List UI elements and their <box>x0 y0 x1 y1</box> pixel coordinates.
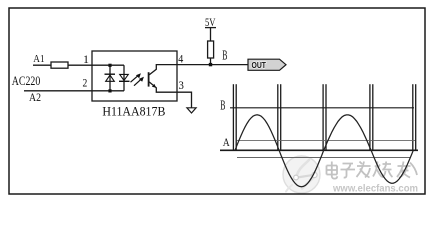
sine wave A <box>235 115 413 187</box>
junction dot top <box>108 64 111 67</box>
light arrows <box>131 73 144 86</box>
wire pin2 internal <box>92 90 124 92</box>
svg-text:H11AA817B: H11AA817B <box>102 104 165 119</box>
pulse 4 <box>369 84 371 151</box>
wire resistor to node B <box>210 58 212 65</box>
ground <box>187 108 196 113</box>
A axis line <box>220 149 418 151</box>
watermark logo <box>283 156 320 193</box>
OUT port flag <box>248 59 286 70</box>
svg-text:3: 3 <box>179 78 184 92</box>
frame border <box>9 8 425 194</box>
diode D2 down <box>119 80 130 82</box>
optocoupler U1 H11AA817B body <box>92 51 177 101</box>
wire resistor to pin1 <box>68 64 92 66</box>
junction dot node B <box>209 63 212 66</box>
node A2 wire <box>24 90 92 92</box>
svg-text:A1: A1 <box>33 53 44 65</box>
watermark hanzi 电子发烧友 (approximated strokes) <box>328 163 419 180</box>
svg-text:A2: A2 <box>29 92 41 104</box>
resistor R1 (input) <box>51 62 68 68</box>
lower threshold line <box>237 157 410 159</box>
wire pin3 to ground <box>177 92 192 108</box>
wire led right branch <box>123 65 125 91</box>
svg-text:A: A <box>223 137 231 149</box>
upper threshold line <box>237 140 415 142</box>
pulse 1 <box>233 84 415 151</box>
svg-text:1: 1 <box>83 52 89 66</box>
wire led left branch <box>109 65 111 91</box>
svg-text:2: 2 <box>83 76 88 90</box>
svg-text:www.elecfans.com: www.elecfans.com <box>332 184 418 195</box>
diode D1 up <box>105 64 130 93</box>
waveform B baseline <box>230 107 414 109</box>
junction dot bottom <box>108 89 111 92</box>
resistor R2 pull-up <box>208 41 214 58</box>
pulse 2 <box>277 84 279 151</box>
svg-text:B: B <box>220 98 225 113</box>
node A1 wire <box>33 64 51 66</box>
pulse 3 <box>322 84 324 151</box>
wire pin1 internal <box>92 64 124 66</box>
pulse 5 <box>412 84 414 151</box>
svg-text:AC220: AC220 <box>12 73 41 88</box>
transistor Q1 <box>149 65 177 93</box>
wire pin4 to OUT <box>177 64 248 66</box>
svg-text:OUT: OUT <box>252 61 267 70</box>
transistor emitter arrow <box>152 84 156 88</box>
svg-text:4: 4 <box>178 52 183 66</box>
wire 5V to resistor <box>210 28 212 41</box>
svg-text:B: B <box>222 47 227 62</box>
5V rail tick <box>205 27 216 29</box>
